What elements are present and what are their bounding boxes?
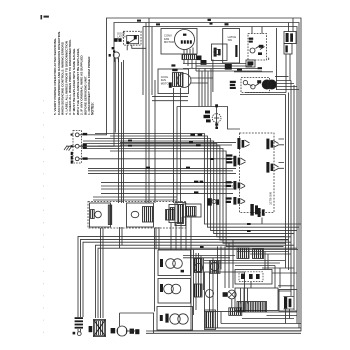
relay K4 [233, 197, 240, 205]
label BK wire [71, 133, 88, 136]
svg-text:3ZTB: 3ZTB [262, 209, 266, 216]
lower right box Z [235, 288, 278, 311]
infinite switch top [207, 198, 219, 205]
wires bake to right verticals [240, 77, 299, 95]
wire drops element row to band [120, 227, 160, 250]
bottom wires right [205, 312, 301, 328]
control box tall [223, 29, 240, 64]
label cluster above lamp [114, 38, 121, 42]
svg-text:WHEN SERVICING CONTROLS. WIRIN: WHEN SERVICING CONTROLS. WIRING ERRORS [61, 42, 65, 115]
latch relay blob [214, 48, 221, 57]
wire lower band left with corners down [78, 237, 285, 317]
wire y255-257 [183, 256, 235, 258]
svg-text:2. IF ANY ORIGINAL WIRE AS SUP: 2. IF ANY ORIGINAL WIRE AS SUPPLIED [80, 55, 84, 115]
wire bundle center to relays [120, 142, 236, 144]
relay box top-right [284, 32, 296, 44]
element row1 circles [164, 284, 174, 294]
wire pair y197-200 [93, 196, 177, 198]
right element box [175, 203, 186, 226]
cooling fan connector [173, 73, 184, 87]
right element connector [166, 210, 175, 221]
svg-text:WITH THE APPLIANCE MUST BE REP: WITH THE APPLIANCE MUST BE REPLACED, [76, 48, 80, 115]
relay K6 mid right [266, 162, 273, 173]
element row2 box [157, 307, 193, 331]
EOC drops to lower band [171, 217, 191, 250]
cooling fan box [158, 69, 189, 94]
wire labels mid [146, 167, 203, 194]
label R wire [71, 152, 88, 164]
label conv fan [164, 34, 174, 44]
wire drops connector to oven box [199, 69, 211, 107]
wire band y183-193 [101, 182, 233, 184]
wire door switch drops [127, 45, 146, 50]
fold artifact dotted line [43, 100, 45, 335]
label 3ZTB SW rotated [269, 192, 273, 205]
wires pins down [184, 60, 196, 72]
wire lamp drop [232, 299, 235, 312]
svg-text:IT MUST BE REPLACED WITH SAME: IT MUST BE REPLACED WITH SAME GAUGE. [72, 48, 76, 115]
element row0 circles [166, 259, 176, 269]
ground [64, 146, 75, 151]
infinite switch right [250, 204, 258, 216]
wire N bus top [79, 23, 299, 147]
element row2 circles [170, 314, 180, 324]
tiny corner mark top-left [41, 15, 49, 19]
label oven lamp [204, 111, 211, 123]
wire drops band to lower cluster [221, 240, 233, 288]
lower right box Y [235, 270, 272, 285]
wire bake top edge [234, 28, 277, 90]
door switch inner [127, 36, 139, 44]
verticals x173-181 [173, 88, 175, 203]
vertical bundle x143-155 [142, 27, 144, 96]
lamp L1 (oven door lock) [113, 52, 119, 58]
svg-text:4. LABEL ALL WIRES PRIOR TO DI: 4. LABEL ALL WIRES PRIOR TO DISCONNECTIO… [64, 40, 68, 115]
label door switch [117, 32, 125, 42]
wire y249 [158, 249, 298, 251]
svg-text:MOTOR: MOTOR [164, 40, 174, 44]
latch motor box [212, 44, 228, 61]
svg-text:CAN CAUSE IMPROPER AND DANGERO: CAN CAUSE IMPROPER AND DANGEROUS OPERATI… [57, 31, 61, 115]
top combs of lower-right cluster [237, 248, 249, 259]
staircase wires buses to relays [95, 134, 301, 225]
label W wire [71, 144, 87, 149]
convection fan motor [175, 30, 195, 50]
wires y96-101 [152, 96, 188, 100]
bottom-left connector stack [75, 317, 83, 328]
bottom comb block [94, 320, 106, 337]
surface element dashed box [88, 202, 186, 229]
main relay dashed box [240, 133, 275, 213]
vertical frame left inner [114, 59, 116, 133]
wire verticals lower right [210, 246, 230, 328]
connector pins under fan [182, 55, 197, 60]
lower junction verticals [191, 250, 204, 331]
cooling fan motor [177, 74, 191, 88]
relay K7 bottom [258, 208, 265, 217]
bottom-left box [120, 313, 154, 333]
bottom frame lines [146, 331, 301, 334]
relay K3 [233, 181, 240, 190]
element row1 comb [194, 284, 202, 297]
wire gauge labels on buses [128, 19, 251, 248]
relay dashed box top [248, 34, 267, 61]
vertical x212.9 [212, 59, 214, 92]
wire mesh lower right [204, 261, 297, 324]
terminal N [75, 144, 79, 148]
bottom motor [117, 326, 127, 336]
bottom-left small lamp [77, 332, 81, 336]
wires from relay boxes down [286, 54, 290, 93]
small relay x170 y82 [169, 82, 172, 87]
wire verticals bundle bottom-left [100, 228, 102, 318]
relay K1 [237, 138, 244, 149]
relay K2 [233, 156, 240, 167]
wire L1 main frame bus [79, 18, 301, 331]
terminal L1 [75, 133, 79, 137]
relay lower right [284, 297, 291, 309]
element row2 switch box [205, 310, 216, 330]
svg-text:1. DISCONNECT RANGE FROM POWER: 1. DISCONNECT RANGE FROM POWER [87, 56, 91, 115]
relay K5 top right [266, 139, 273, 150]
oven lamp [212, 114, 221, 123]
oven cavity wire loop [177, 107, 240, 130]
svg-text:BEFORE SERVICING UNIT.: BEFORE SERVICING UNIT. [83, 76, 87, 115]
wires fan to pins [184, 48, 193, 55]
small box above bake relay [246, 60, 255, 67]
EOC connector cluster [169, 205, 183, 223]
convection fan box [161, 29, 197, 55]
label bake relay [230, 67, 262, 89]
wire bus y26.5 [143, 27, 297, 88]
wire mesh right of box Y [237, 252, 297, 313]
light comb [229, 308, 242, 316]
element row1 box [158, 279, 191, 304]
oven light lower [227, 290, 236, 299]
left element [95, 211, 102, 218]
wire L2 run [79, 158, 236, 160]
element row0 box [158, 250, 191, 276]
left element box [90, 203, 111, 227]
bake relay coil (dark) [262, 80, 276, 89]
mid element [131, 211, 139, 217]
svg-text:5. VERIFY PROPER OPERATION AFT: 5. VERIFY PROPER OPERATION AFTER SERVICI… [53, 38, 57, 115]
wire lamp stem [216, 107, 218, 128]
terminal L2 [75, 157, 79, 161]
element row0 switch combs [194, 259, 202, 273]
mid element box [127, 203, 154, 227]
bake relay dashed box [241, 78, 270, 93]
svg-text:3ZTB SW: 3ZTB SW [269, 192, 273, 205]
lower big box around light [205, 272, 245, 312]
door switch dashed box [124, 31, 142, 45]
wire labels BU-W [189, 134, 202, 147]
notes text block (rotated service notes) [53, 31, 95, 115]
terminal block TB (dashed) [73, 131, 82, 164]
wire labels left of relay box [226, 154, 233, 203]
connector blobs [197, 56, 207, 65]
relay box outline lower right [279, 290, 297, 312]
right vertical wire bundle [286, 81, 300, 329]
wires mid top y63-71 [183, 64, 262, 72]
wires cooling fan right [191, 78, 213, 83]
svg-text:3. CHECK ALL WIRES PRIOR TO DI: 3. CHECK ALL WIRES PRIOR TO DISCONNECTIO… [68, 39, 72, 115]
svg-text:SW: SW [228, 38, 233, 42]
relay box top-right lower [284, 44, 292, 55]
label right of cooling fan [225, 64, 232, 70]
wire band y168-174 [88, 167, 236, 169]
wire stubs top right [252, 18, 293, 34]
